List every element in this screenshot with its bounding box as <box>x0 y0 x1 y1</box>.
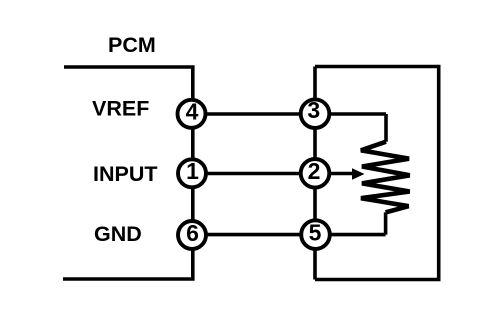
svg-text:PCM: PCM <box>108 33 156 57</box>
svg-text:3: 3 <box>307 97 320 123</box>
svg-text:VREF: VREF <box>92 96 149 120</box>
svg-text:5: 5 <box>309 220 322 246</box>
svg-text:4: 4 <box>186 99 199 125</box>
svg-text:1: 1 <box>186 158 199 184</box>
svg-text:2: 2 <box>308 158 321 184</box>
svg-text:GND: GND <box>94 222 142 246</box>
svg-text:INPUT: INPUT <box>93 162 158 186</box>
svg-text:6: 6 <box>186 220 199 246</box>
